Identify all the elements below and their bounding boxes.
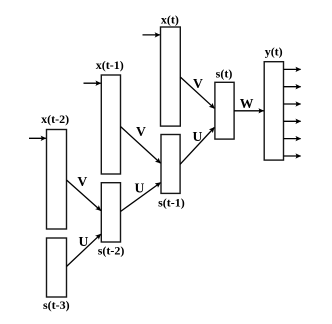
output arrow 1 from y(t) (284, 68, 301, 70)
arrow V from x(t-2) to s(t-2) (67, 180, 101, 211)
svg-text:V: V (136, 124, 146, 139)
output arrow 2 from y(t) (284, 86, 301, 88)
input arrow into x(t-2) (29, 137, 46, 139)
svg-text:s(t): s(t) (216, 66, 233, 80)
box s(t-2) (101, 183, 120, 242)
arrow U from s(t-1) to s(t) (180, 128, 214, 165)
arrow V from x(t) to s(t) (180, 77, 214, 108)
svg-text:s(t-1): s(t-1) (158, 196, 185, 210)
input arrow into x(t-1) (84, 82, 101, 84)
arrow U from s(t-3) to s(t-2) (67, 234, 101, 266)
svg-text:x(t): x(t) (161, 12, 179, 26)
svg-text:V: V (77, 174, 87, 189)
output arrow 5 from y(t) (284, 138, 301, 140)
svg-text:U: U (79, 234, 89, 249)
svg-text:x(t-2): x(t-2) (41, 112, 69, 126)
output arrow 3 from y(t) (284, 103, 301, 105)
arrow V from x(t-1) to s(t-1) (121, 127, 161, 164)
box x(t-1) (101, 75, 120, 174)
box x(t) (161, 27, 181, 126)
output arrow 6 from y(t) (284, 155, 301, 157)
svg-text:U: U (135, 181, 145, 196)
svg-text:y(t): y(t) (265, 44, 283, 58)
arrow U from s(t-2) to s(t-1) (121, 183, 161, 212)
svg-text:s(t-2): s(t-2) (98, 243, 125, 257)
box s(t-3) (47, 238, 67, 297)
box x(t-2) (47, 130, 67, 230)
svg-text:W: W (240, 96, 254, 111)
svg-text:U: U (193, 129, 203, 144)
box s(t) (215, 82, 234, 139)
box s(t-1) (161, 135, 180, 194)
input arrow into x(t) (143, 34, 160, 36)
svg-text:V: V (193, 76, 203, 91)
arrow W from s(t) to y(t) (234, 110, 263, 112)
svg-text:s(t-3): s(t-3) (43, 298, 70, 312)
box y(t) (264, 62, 283, 160)
svg-text:x(t-1): x(t-1) (96, 58, 124, 72)
output arrow 4 from y(t) (284, 120, 301, 122)
